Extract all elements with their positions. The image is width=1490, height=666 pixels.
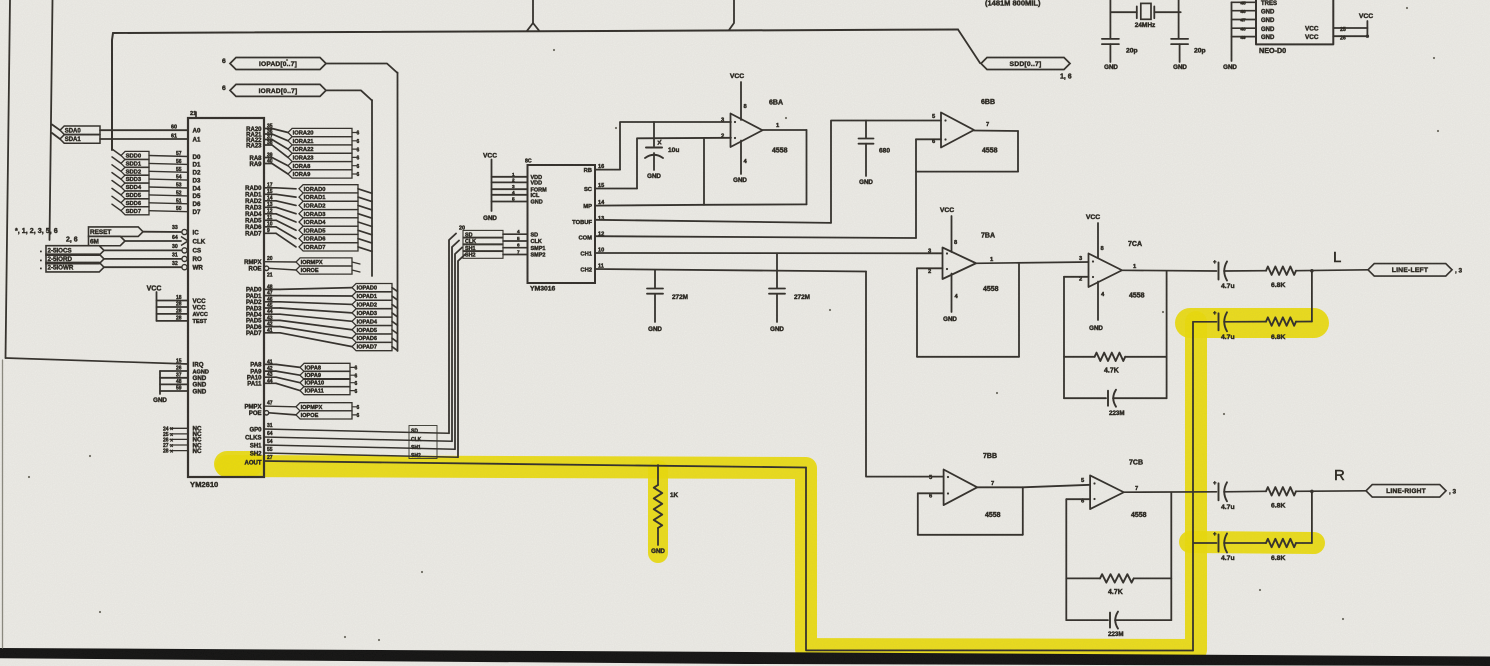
wire COM to 6BB feedback xyxy=(595,131,1018,238)
wire AOUT down and along bottom xyxy=(806,468,1193,651)
op-amp 6BA xyxy=(721,100,807,155)
wire NEO-D0 VCC pins xyxy=(1333,13,1373,42)
ground 7CA pin4 xyxy=(1089,282,1105,333)
scan artifact black bar xyxy=(0,648,1490,666)
resistor 4.7K feedback 7CA xyxy=(1064,353,1167,375)
wire bend to data bus xyxy=(112,33,113,150)
capacitor 10u xyxy=(645,122,679,170)
wire MP feedback 6BA xyxy=(595,130,807,206)
wire junction vertical at x533 xyxy=(527,0,533,31)
wire SH2 to DAC SMP2 xyxy=(264,255,465,458)
wire top horizontal bus xyxy=(113,30,958,34)
bus vertical IORAD xyxy=(371,100,373,276)
wire SC to opamp 6BA - xyxy=(595,138,731,189)
wire SDA1 into A1 xyxy=(52,133,188,143)
capacitor 4.7u right top xyxy=(1213,481,1235,511)
wire diagonal to SDD tag xyxy=(958,30,980,64)
power AGND group to U1 xyxy=(153,359,188,405)
net RMPX ROE tags xyxy=(264,256,360,279)
net tag 2-5IOWR xyxy=(40,261,187,272)
wire second border vertical xyxy=(50,0,53,240)
wire AOUT vertical riser xyxy=(1192,322,1194,651)
bus tag IORAD[0..7] xyxy=(222,84,372,100)
data bus SDD0-SDD7 tags xyxy=(112,149,188,215)
op-amp 7BA xyxy=(928,233,1089,294)
IC NEO-D0 xyxy=(1256,0,1333,55)
resistor 1K on AOUT xyxy=(654,465,679,545)
op-amp 7BB xyxy=(929,453,1023,519)
wire CLKS to DAC CLK xyxy=(264,241,459,442)
wire SDA0 into A0 xyxy=(52,125,188,135)
page edge faint line xyxy=(2,360,4,648)
resistor 6.8K right bottom highlighted xyxy=(1224,539,1312,562)
wire 7CB inverting input xyxy=(1066,499,1090,620)
wire 7CB output xyxy=(1124,491,1217,493)
bus vertical IOPAD xyxy=(397,73,399,352)
NC pin stubs of U1 xyxy=(163,426,188,455)
capacitor 223M feedback 7CA xyxy=(1064,390,1167,417)
op-amp 6BB xyxy=(932,99,1018,155)
wire junction to lower branch right xyxy=(1310,490,1314,543)
ground 7BA pin4 xyxy=(943,274,958,324)
wire 7CA inverting input xyxy=(1064,277,1089,398)
capacitor 272M on CH2 xyxy=(647,271,688,323)
wire left page border xyxy=(6,0,11,358)
wire AOUT run xyxy=(264,455,806,468)
capacitor 20p left xyxy=(1102,39,1138,71)
wire junction to lower branch left xyxy=(1310,269,1314,322)
resistor 6.8K left bottom highlighted xyxy=(1224,317,1312,341)
IC U1 YM2610 xyxy=(188,111,264,489)
resistor 6.8K right top xyxy=(1224,487,1366,509)
bus tag LINE-LEFT xyxy=(1333,249,1463,276)
crystal X1 24MHz xyxy=(1135,3,1156,29)
power VCC feed to DAC xyxy=(483,153,527,203)
wire 7BB feedback xyxy=(918,487,1023,535)
resistor 6.8K left top xyxy=(1224,267,1368,290)
bus RAD0-RAD7 tags xyxy=(264,183,372,252)
wire crystal node right xyxy=(1154,0,1180,39)
capacitor 4.7u left bottom highlighted xyxy=(1194,311,1235,341)
power VCC feed to U1 xyxy=(147,286,188,322)
power VCC 7CA xyxy=(1086,214,1105,258)
bus RA20-RA9 tags xyxy=(264,123,360,178)
op-amp 7CA xyxy=(1079,241,1145,300)
bus PA8-PA11 tags xyxy=(264,359,358,394)
net tags SD CLK SH1 SH2 at DAC xyxy=(459,226,527,259)
wire 7CA feedback right leg xyxy=(1166,272,1168,399)
wire CH1 to opamp 7BA + xyxy=(595,252,943,254)
wire IRQ from border xyxy=(6,358,189,364)
bus tag IOPAD[0..7] xyxy=(222,58,398,74)
capacitor 680 xyxy=(859,121,891,177)
capacitor 272M on CH1 xyxy=(769,253,810,322)
IC U2 YM3016 DAC xyxy=(525,159,605,293)
bus tag LINE-RIGHT xyxy=(1334,467,1457,497)
wire GP0 to DAC SD xyxy=(264,234,456,434)
wire CH2 to opamp 7BB + xyxy=(595,269,944,477)
bus tag SDD[0..7] xyxy=(981,58,1072,81)
net PMPX POE tags xyxy=(264,401,360,420)
net tag 2-5IOCS xyxy=(40,244,187,255)
net tag 2-5IORD xyxy=(40,253,187,264)
net tag RESET xyxy=(89,225,188,236)
power VCC 6BA xyxy=(730,73,748,120)
wire 7CB feedback right leg xyxy=(1170,493,1172,621)
wire SH1 to DAC SMP1 xyxy=(264,248,462,450)
net labels on GP lines xyxy=(409,426,437,460)
wire NEO-D0 left pins to ground xyxy=(1223,1,1256,72)
wire 7BB output to 7CB xyxy=(1023,485,1090,488)
capacitor 4.7u left top xyxy=(1213,260,1235,290)
capacitor 20p right xyxy=(1171,39,1206,71)
ground 6BA pin4 xyxy=(733,141,747,185)
capacitor 223M feedback 7CB xyxy=(1066,612,1171,638)
wire 7CA output xyxy=(1122,269,1217,272)
net tag 6M clock xyxy=(89,235,189,246)
wire 7BA feedback xyxy=(917,264,1019,357)
wire RB to opamp 6BA + xyxy=(595,122,731,170)
bus PAD0-PAD7 tags xyxy=(264,284,398,351)
op-amp 7CB xyxy=(1081,460,1147,520)
highlighted wire AOUT trace xyxy=(226,322,1314,650)
wire junction vertical at x734 xyxy=(729,0,734,30)
capacitor 4.7u right bottom highlighted xyxy=(1194,532,1235,562)
resistor 4.7K feedback 7CB xyxy=(1066,574,1171,596)
wire crystal node left xyxy=(1110,0,1136,39)
wire TOBUF to opamp 6BB + xyxy=(595,121,941,223)
ground at DAC xyxy=(483,202,497,223)
power VCC 7BA xyxy=(940,207,958,252)
